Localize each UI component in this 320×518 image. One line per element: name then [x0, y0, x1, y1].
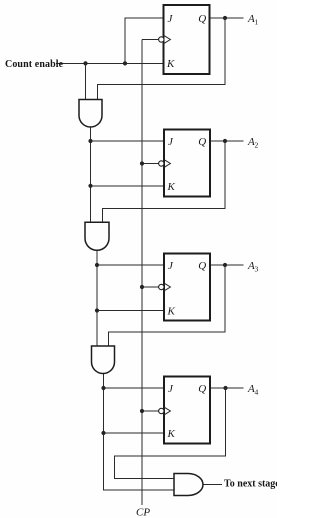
wire: J2 input: [91, 140, 165, 142]
wire: Q1 output to A1: [210, 17, 244, 19]
wire: Q2 output to A2: [210, 140, 244, 142]
AND gate G3: [92, 346, 115, 374]
node: junction Count enable to G1: [83, 61, 87, 65]
node: junction K2: [88, 184, 92, 188]
clock line CP vertical: [141, 40, 143, 506]
svg-text:K: K: [167, 181, 176, 193]
wire: A3 feedback down to G3 right input: [108, 265, 225, 346]
wire: clock branch FF3: [142, 286, 159, 288]
wire: clock branch FF4: [142, 410, 159, 412]
svg-text:2: 2: [255, 141, 259, 150]
node: junction on Q2 output: [223, 139, 227, 143]
node: junction J4: [101, 386, 105, 390]
wire: G1 output chain to J2,K2 and G2: [90, 127, 92, 222]
wire: A1 feedback down and left to G1 right input: [98, 18, 226, 100]
wire: Q4 output to A4: [210, 387, 244, 389]
clock wedge U4: [164, 407, 170, 414]
node: junction K4: [101, 431, 105, 435]
node: clock junction FF2: [140, 161, 144, 165]
wire: K3 input: [97, 310, 164, 312]
svg-text:1: 1: [255, 18, 259, 27]
wire: clock branch FF1: [142, 39, 159, 41]
clock wedge U3: [164, 283, 170, 290]
flip-flop U3: [164, 254, 210, 321]
wire: G2 output chain to J3,K3 and G3: [96, 250, 98, 346]
wire: K4 input: [104, 432, 165, 434]
AND gate G2: [85, 222, 109, 250]
node: junction K3: [95, 308, 99, 312]
wire: clock branch FF2: [142, 163, 159, 165]
wire: G3 output chain to J4,K4 and G4: [104, 374, 175, 490]
flip-flop U2: [164, 130, 210, 197]
flip-flop U1: [164, 5, 210, 74]
wire: A4 feedback down to G4 top input: [115, 388, 226, 479]
node: clock junction FF3: [140, 285, 144, 289]
wire: Count enable horizontal line to K1: [56, 62, 164, 64]
clock wedge U2: [164, 160, 170, 167]
node: junction J1 tie on Count enable line: [123, 61, 127, 65]
wire: Count enable branch down to G1 left input: [85, 63, 87, 99]
node: junction on Q3 output: [223, 263, 227, 267]
flip-flop U4: [164, 377, 210, 444]
clock bubble U3: [159, 284, 164, 289]
AND gate G4: [174, 474, 203, 496]
svg-text:K: K: [167, 306, 176, 318]
svg-text:Q: Q: [198, 13, 206, 25]
svg-text:To next stage: To next stage: [224, 479, 277, 490]
clock bubble U1: [159, 37, 164, 42]
node: junction J3: [95, 263, 99, 267]
AND gate G1: [79, 100, 102, 127]
wire: G4 output to next stage: [203, 484, 222, 486]
wire: J4 input: [104, 387, 165, 389]
clock bubble U2: [159, 161, 164, 166]
clock wedge U1: [164, 36, 170, 43]
svg-text:3: 3: [255, 265, 259, 274]
svg-text:4: 4: [255, 388, 259, 397]
wire: J1 tie loop (J to Count enable): [125, 18, 164, 63]
node: junction on Q4 output: [223, 386, 227, 390]
wire: J3 input: [97, 264, 164, 266]
node: junction on Q1 output: [223, 16, 227, 20]
wire: A2 feedback down to G2 right input: [102, 141, 225, 222]
node: clock junction FF4: [140, 409, 144, 413]
clock bubble U4: [159, 408, 164, 413]
svg-text:K: K: [166, 58, 175, 70]
svg-text:K: K: [167, 428, 176, 440]
wire: Q3 output to A3: [210, 264, 244, 266]
svg-text:CP: CP: [136, 507, 150, 518]
wire: K2 input: [91, 185, 165, 187]
svg-text:Q: Q: [198, 383, 206, 395]
svg-text:Q: Q: [198, 260, 206, 272]
svg-text:Count enable: Count enable: [5, 59, 64, 70]
svg-text:Q: Q: [198, 136, 206, 148]
node: junction J2: [88, 139, 92, 143]
